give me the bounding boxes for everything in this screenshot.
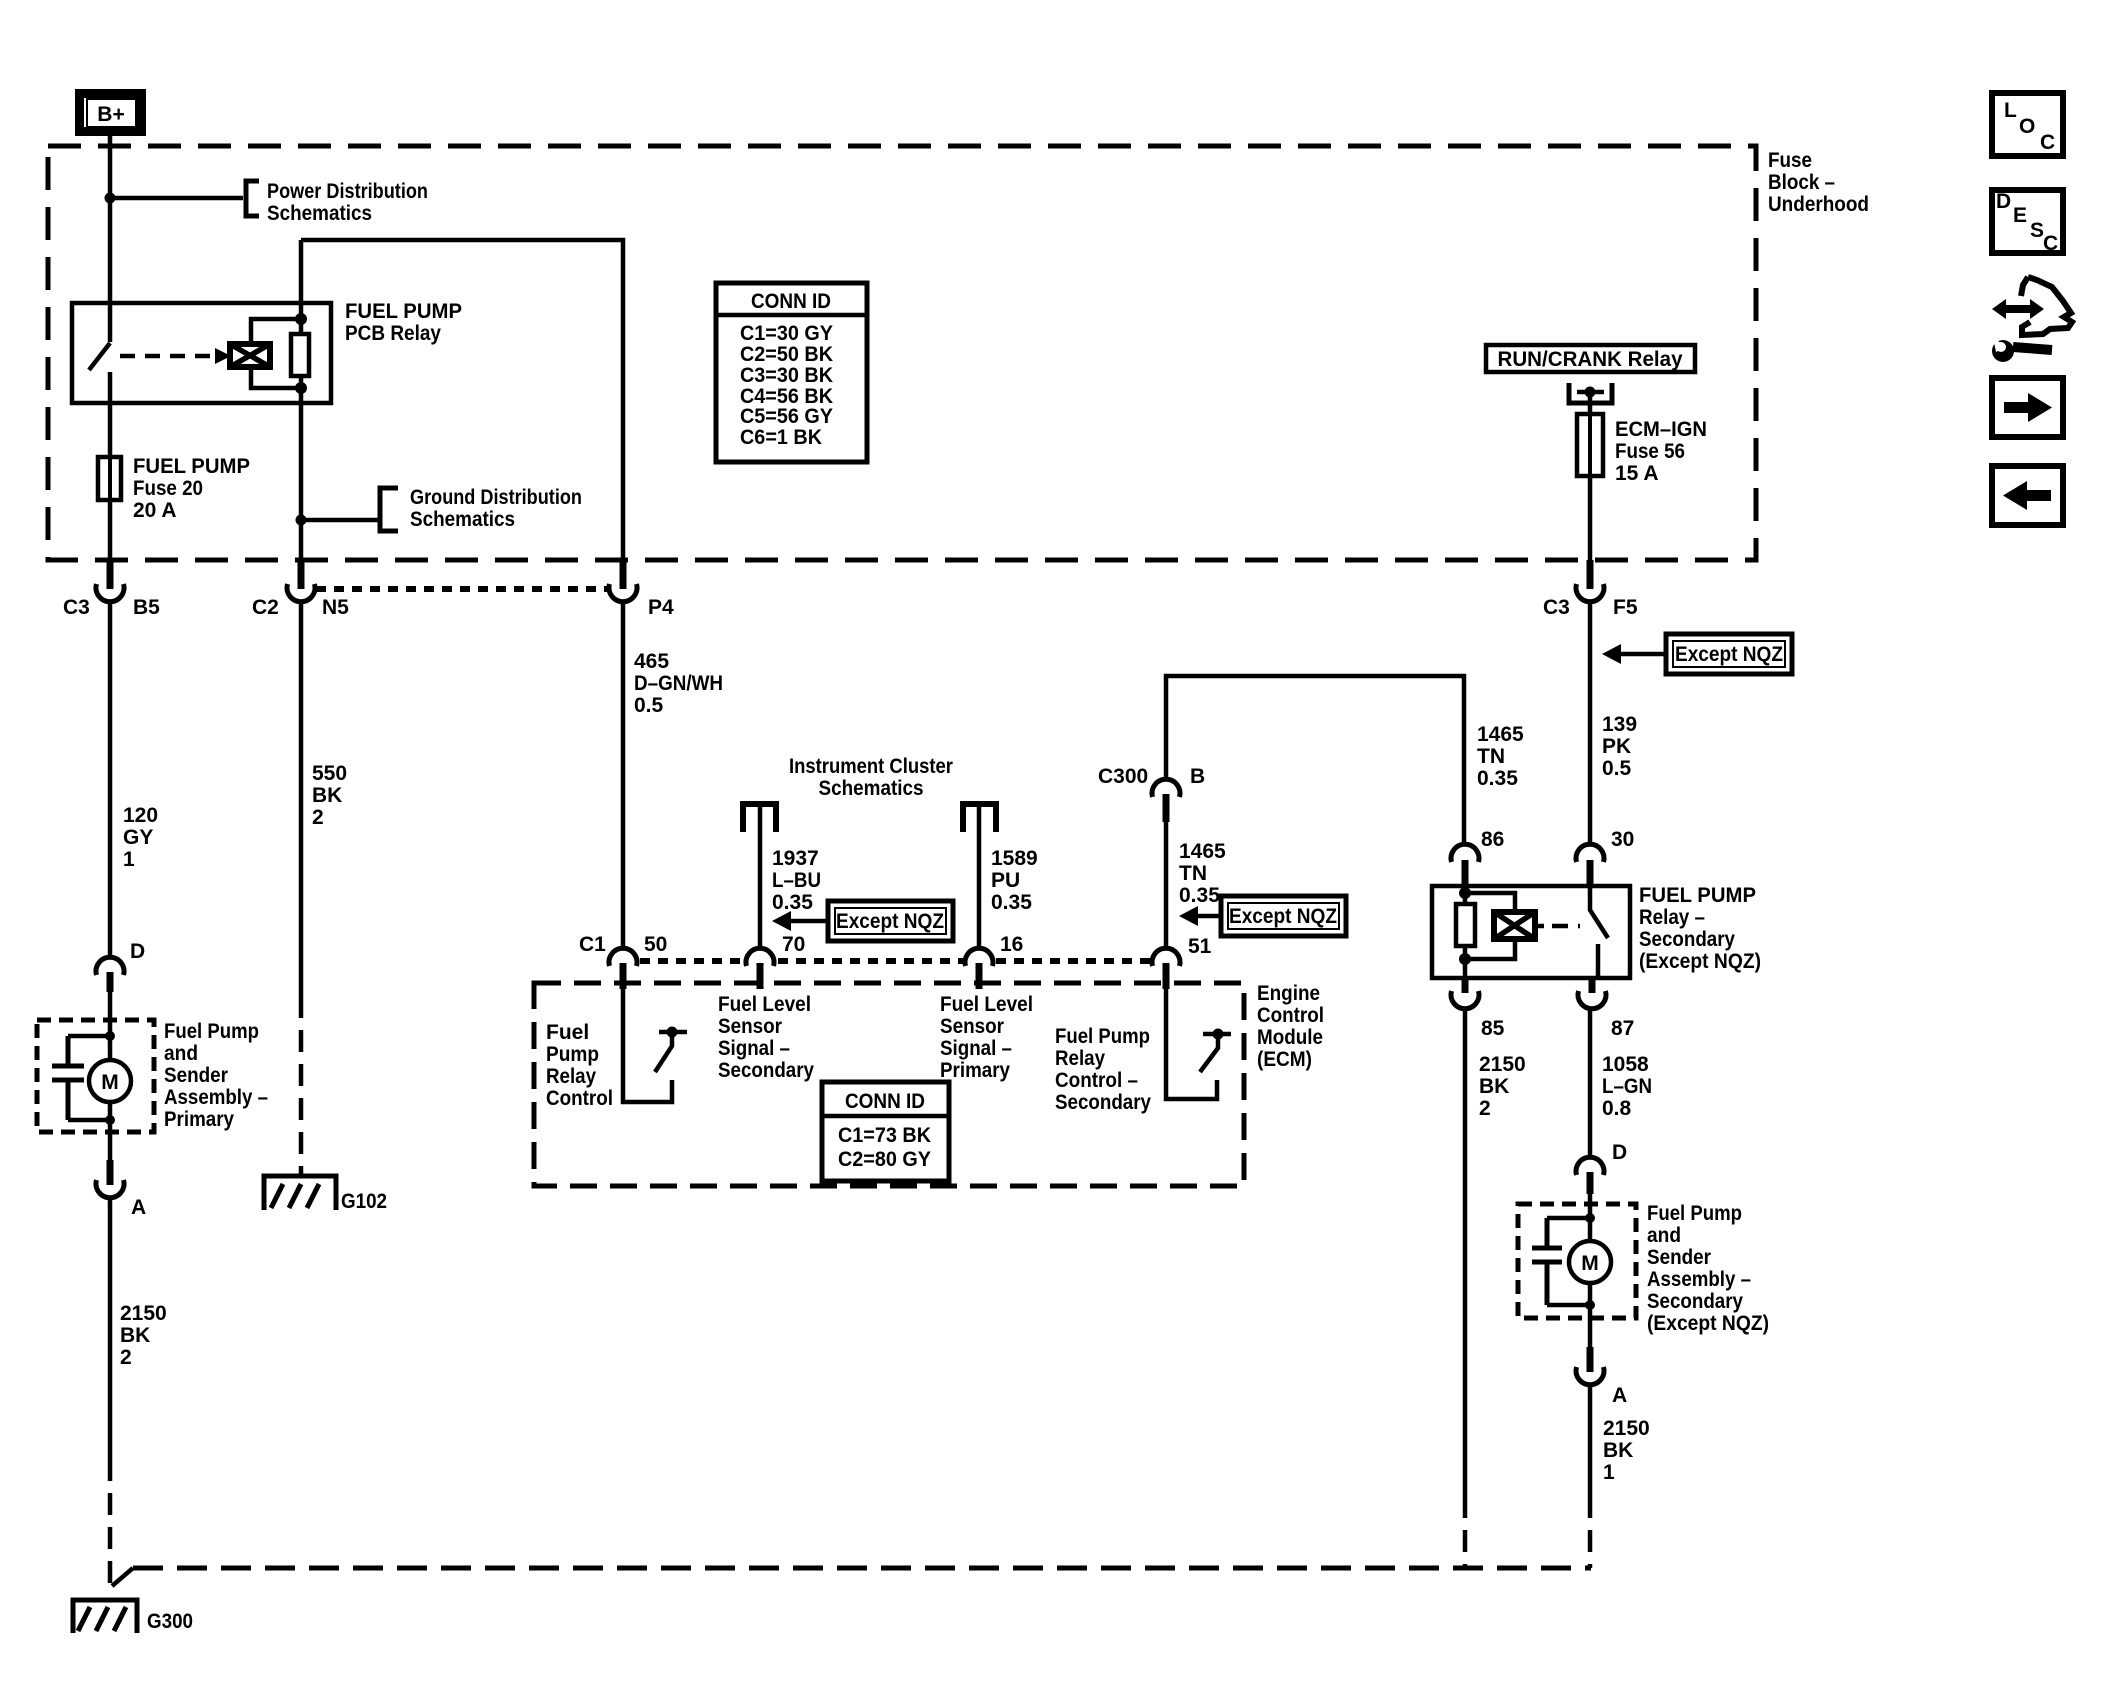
svg-text:30: 30 bbox=[1611, 828, 1634, 851]
svg-text:D: D bbox=[1612, 1141, 1627, 1164]
node: primary pump bottom junction bbox=[105, 1115, 115, 1125]
svg-text:Instrument Cluster: Instrument Cluster bbox=[789, 755, 953, 778]
relay K1 actuation dashed line with arrowhead bbox=[120, 348, 231, 364]
relay K2 left leg wire bbox=[1463, 886, 1468, 978]
relay K2 actuation dashed line bbox=[1552, 924, 1580, 929]
svg-text:Fuel Level: Fuel Level bbox=[940, 993, 1033, 1016]
svg-text:70: 70 bbox=[782, 933, 805, 956]
svg-text:Schematics: Schematics bbox=[410, 508, 515, 531]
icon: adjust/hand with double arrow and wrench bbox=[1992, 277, 2072, 362]
svg-text:FUEL PUMP: FUEL PUMP bbox=[345, 300, 462, 323]
table: CONN ID (fuse block) bbox=[716, 283, 867, 462]
svg-text:C5=56 GY: C5=56 GY bbox=[740, 405, 833, 428]
ECM driver switch (pin 51) bbox=[1166, 987, 1231, 1099]
wire: top elbow from relay coil to P4 column bbox=[301, 240, 623, 560]
svg-text:(Except NQZ): (Except NQZ) bbox=[1639, 950, 1761, 973]
svg-text:2150: 2150 bbox=[120, 1302, 167, 1325]
svg-text:0.35: 0.35 bbox=[1179, 884, 1220, 907]
svg-text:FUEL PUMP: FUEL PUMP bbox=[1639, 884, 1756, 907]
svg-text:M: M bbox=[101, 1071, 119, 1094]
svg-text:C2: C2 bbox=[252, 596, 279, 619]
svg-text:B: B bbox=[1190, 765, 1205, 788]
motor M1: primary fuel pump bbox=[89, 1060, 131, 1102]
svg-text:Ground Distribution: Ground Distribution bbox=[410, 486, 582, 509]
icon box DESC bbox=[1992, 190, 2063, 255]
label: Engine Control Module (ECM) bbox=[1257, 982, 1324, 1071]
connector C300 pin B bbox=[1098, 765, 1205, 822]
svg-text:85: 85 bbox=[1481, 1017, 1505, 1040]
svg-text:and: and bbox=[1647, 1224, 1681, 1247]
svg-text:CONN ID: CONN ID bbox=[845, 1090, 925, 1113]
fuel pump and sender assembly secondary (dashed box) bbox=[1518, 1204, 1636, 1318]
svg-text:RUN/CRANK Relay: RUN/CRANK Relay bbox=[1498, 348, 1683, 371]
capacitor in primary pump assembly bbox=[52, 1036, 110, 1120]
ECM driver switch (pin 50) bbox=[623, 987, 687, 1102]
svg-text:120: 120 bbox=[123, 804, 158, 827]
svg-text:Secondary: Secondary bbox=[1647, 1290, 1743, 1313]
label box: RUN/CRANK Relay bbox=[1486, 345, 1695, 372]
svg-text:ECM–IGN: ECM–IGN bbox=[1615, 418, 1707, 441]
wire: pump primary to connector A bbox=[108, 1102, 113, 1160]
relay K2 coil (X box) bbox=[1494, 912, 1544, 939]
svg-text:E: E bbox=[2013, 204, 2027, 227]
relay K2 coil branch wires bbox=[1465, 893, 1515, 959]
svg-text:87: 87 bbox=[1611, 1017, 1634, 1040]
svg-text:1: 1 bbox=[1603, 1461, 1615, 1484]
svg-text:L: L bbox=[2004, 99, 2017, 122]
svg-text:A: A bbox=[1612, 1384, 1627, 1407]
svg-text:550: 550 bbox=[312, 762, 347, 785]
svg-text:Primary: Primary bbox=[164, 1108, 234, 1131]
svg-text:Fuel: Fuel bbox=[546, 1021, 589, 1044]
wire 550 BK 2 (N5 to G102) bbox=[301, 601, 347, 1176]
svg-text:Fuel Pump: Fuel Pump bbox=[1055, 1025, 1150, 1048]
svg-text:and: and bbox=[164, 1042, 198, 1065]
label: FUEL PUMP PCB Relay bbox=[345, 300, 462, 345]
wire: switch output down from relay (x=110) bbox=[108, 372, 113, 560]
svg-text:S: S bbox=[2030, 219, 2044, 242]
capacitor in secondary pump assembly bbox=[1532, 1218, 1590, 1305]
ground G300 bbox=[73, 1600, 193, 1633]
wire: dotted C1 harness line bbox=[640, 958, 1150, 964]
svg-text:C300: C300 bbox=[1098, 765, 1148, 788]
svg-text:Except NQZ: Except NQZ bbox=[836, 910, 944, 933]
bracket: Power Distribution Schematics bbox=[246, 180, 428, 225]
relay K1: FUEL PUMP PCB Relay box bbox=[72, 303, 331, 403]
label: Fuel Pump and Sender Assembly Primary bbox=[164, 1020, 268, 1131]
svg-text:Secondary: Secondary bbox=[1055, 1091, 1151, 1114]
svg-text:Sensor: Sensor bbox=[940, 1015, 1004, 1038]
svg-text:G300: G300 bbox=[147, 1610, 193, 1633]
svg-text:Signal –: Signal – bbox=[718, 1037, 790, 1060]
relay K1 switch lever bbox=[89, 343, 110, 370]
relay K1 coil branch wires bbox=[251, 319, 301, 388]
svg-text:15 A: 15 A bbox=[1615, 462, 1659, 485]
svg-text:2150: 2150 bbox=[1603, 1417, 1650, 1440]
svg-text:N5: N5 bbox=[322, 596, 349, 619]
svg-text:(Except NQZ): (Except NQZ) bbox=[1647, 1312, 1769, 1335]
label: Fuel Level Sensor Signal Secondary bbox=[718, 993, 814, 1082]
node: secondary pump top junction bbox=[1585, 1213, 1595, 1223]
wire: dotted jumper N5 to P4 bbox=[316, 586, 608, 592]
label: Instrument Cluster Schematics bbox=[789, 755, 953, 800]
svg-text:C: C bbox=[2043, 232, 2058, 255]
connector pin 70 (ECM) bbox=[746, 933, 805, 989]
connector relay pin 85 bbox=[1451, 978, 1505, 1040]
svg-text:D: D bbox=[130, 940, 145, 963]
svg-text:L–BU: L–BU bbox=[772, 869, 821, 892]
svg-text:(ECM): (ECM) bbox=[1257, 1048, 1312, 1071]
svg-text:Fuel Pump: Fuel Pump bbox=[164, 1020, 259, 1043]
node: relay K2 coil top junction bbox=[1459, 887, 1471, 899]
fuse F56: ECM-IGN Fuse 56 bbox=[1577, 414, 1707, 485]
svg-text:F5: F5 bbox=[1613, 596, 1638, 619]
svg-text:1937: 1937 bbox=[772, 847, 819, 870]
connector pin 16 (ECM) bbox=[965, 933, 1023, 989]
ECM dashed box bbox=[534, 983, 1244, 1186]
relay terminal cup under RUN/CRANK bbox=[1569, 383, 1612, 403]
wire 1589 PU 0.35 (cluster to ECM pin 16) bbox=[979, 806, 1038, 947]
svg-text:D–GN/WH: D–GN/WH bbox=[634, 672, 723, 695]
svg-text:C3=30 BK: C3=30 BK bbox=[740, 364, 833, 387]
svg-text:Fuse 20: Fuse 20 bbox=[133, 477, 203, 500]
resistor inside relay K1 bbox=[291, 334, 309, 376]
svg-text:M: M bbox=[1581, 1252, 1599, 1275]
fuse block underhood (dashed boundary) bbox=[48, 146, 1756, 560]
svg-text:Secondary: Secondary bbox=[1639, 928, 1735, 951]
icon box: left arrow bbox=[1992, 466, 2063, 525]
wire: ground distribution tap bbox=[301, 518, 380, 523]
motor M2: secondary fuel pump bbox=[1569, 1241, 1611, 1283]
wire: ECM pin 51 riser and top elbow to relay pin 86 bbox=[1166, 676, 1464, 843]
svg-text:1: 1 bbox=[123, 848, 135, 871]
node: primary pump top junction bbox=[105, 1031, 115, 1041]
svg-text:Except NQZ: Except NQZ bbox=[1675, 643, 1783, 666]
svg-text:Relay: Relay bbox=[1055, 1047, 1105, 1070]
connector pin A (secondary pump) bbox=[1576, 1347, 1627, 1407]
svg-text:BK: BK bbox=[120, 1324, 150, 1347]
svg-text:Assembly –: Assembly – bbox=[1647, 1268, 1751, 1291]
svg-text:Fuse: Fuse bbox=[1768, 149, 1812, 172]
svg-text:1058: 1058 bbox=[1602, 1053, 1649, 1076]
svg-text:0.35: 0.35 bbox=[991, 891, 1032, 914]
svg-text:465: 465 bbox=[634, 650, 669, 673]
svg-text:0.5: 0.5 bbox=[634, 694, 664, 717]
wire: D to fuel pump secondary bbox=[1588, 1194, 1593, 1241]
node: coil branch bottom junction bbox=[295, 382, 307, 394]
node: secondary pump bottom junction bbox=[1585, 1300, 1595, 1310]
connector relay pin 86 bbox=[1451, 828, 1504, 886]
wire 1465 TN 0.35 (C300 to ECM pin 51) bbox=[1166, 822, 1226, 947]
connector pin D (primary pump) bbox=[96, 940, 145, 992]
svg-text:Schematics: Schematics bbox=[267, 202, 372, 225]
svg-text:Control: Control bbox=[1257, 1004, 1324, 1027]
svg-text:2150: 2150 bbox=[1479, 1053, 1526, 1076]
svg-text:C3: C3 bbox=[1543, 596, 1570, 619]
svg-text:D: D bbox=[1996, 190, 2011, 213]
table: CONN ID (ECM) bbox=[822, 1082, 949, 1181]
svg-text:Control –: Control – bbox=[1055, 1069, 1138, 1092]
svg-text:C1=73 BK: C1=73 BK bbox=[838, 1124, 931, 1147]
svg-text:1465: 1465 bbox=[1477, 723, 1524, 746]
svg-text:0.35: 0.35 bbox=[772, 891, 813, 914]
svg-text:L–GN: L–GN bbox=[1602, 1075, 1652, 1098]
connector relay pin 30 bbox=[1576, 828, 1634, 886]
wire 1937 L-BU 0.35 (cluster to ECM pin 70) bbox=[760, 806, 821, 947]
svg-text:Pump: Pump bbox=[546, 1043, 599, 1066]
icon box LOC bbox=[1992, 93, 2063, 156]
svg-text:C2=50 BK: C2=50 BK bbox=[740, 343, 833, 366]
svg-text:B5: B5 bbox=[133, 596, 160, 619]
connector C3 pin B5 bbox=[63, 560, 160, 619]
svg-text:C1: C1 bbox=[579, 933, 606, 956]
wire 1058 L-GN 0.8 (relay 87 to D) bbox=[1590, 1010, 1652, 1157]
svg-text:Assembly –: Assembly – bbox=[164, 1086, 268, 1109]
svg-text:Fuse 56: Fuse 56 bbox=[1615, 440, 1685, 463]
svg-text:TN: TN bbox=[1179, 862, 1207, 885]
svg-text:Fuel Level: Fuel Level bbox=[718, 993, 811, 1016]
wire: D to fuel pump primary bbox=[108, 992, 113, 1060]
svg-text:Sensor: Sensor bbox=[718, 1015, 782, 1038]
callout: Except NQZ (wire 139) bbox=[1602, 634, 1792, 674]
svg-text:O: O bbox=[2019, 115, 2035, 138]
fuel pump and sender assembly primary (dashed box) bbox=[37, 1020, 154, 1132]
svg-text:C3: C3 bbox=[63, 596, 90, 619]
svg-text:Block –: Block – bbox=[1768, 171, 1835, 194]
svg-text:Relay: Relay bbox=[546, 1065, 596, 1088]
svg-text:BK: BK bbox=[1603, 1439, 1633, 1462]
wire: RUN/CRANK output into fuse 56 bbox=[1588, 392, 1593, 414]
svg-text:Sender: Sender bbox=[164, 1064, 228, 1087]
svg-text:B+: B+ bbox=[97, 103, 124, 126]
wire: fuse 56 output to F5 (x=1590) bbox=[1588, 476, 1593, 560]
label: FUEL PUMP Relay Secondary (Except NQZ) bbox=[1639, 884, 1761, 973]
svg-text:Underhood: Underhood bbox=[1768, 193, 1869, 216]
node: power distribution tap junction bbox=[105, 193, 116, 204]
label: Fuel Pump Relay Control Secondary bbox=[1055, 1025, 1151, 1114]
svg-text:CONN ID: CONN ID bbox=[751, 290, 831, 313]
svg-text:0.5: 0.5 bbox=[1602, 757, 1632, 780]
svg-text:GY: GY bbox=[123, 826, 153, 849]
svg-text:Power Distribution: Power Distribution bbox=[267, 180, 428, 203]
wire 465 D-GN/WH 0.5 (P4 to ECM pin 50) bbox=[623, 601, 723, 947]
svg-text:Schematics: Schematics bbox=[819, 777, 924, 800]
svg-text:P4: P4 bbox=[648, 596, 674, 619]
wire: pump secondary to connector A bbox=[1588, 1283, 1593, 1347]
connector C2 pin N5 bbox=[252, 560, 349, 619]
power symbol B+ bbox=[80, 94, 142, 132]
svg-text:Primary: Primary bbox=[940, 1059, 1010, 1082]
svg-text:C1=30 GY: C1=30 GY bbox=[740, 322, 833, 345]
svg-text:Signal –: Signal – bbox=[940, 1037, 1012, 1060]
svg-text:C: C bbox=[2040, 131, 2055, 154]
wire: relay right leg (x=301) through resistor bbox=[299, 240, 304, 560]
bracket: Ground Distribution Schematics bbox=[380, 486, 582, 531]
svg-text:16: 16 bbox=[1000, 933, 1023, 956]
connector pin P4 bbox=[609, 560, 674, 619]
wire 139 PK 0.5 (F5 down to relay pin 30) bbox=[1590, 601, 1637, 843]
svg-text:Fuel Pump: Fuel Pump bbox=[1647, 1202, 1742, 1225]
wire 120 GY 1 (B5 down to D) bbox=[110, 601, 158, 956]
wire: B+ feed down to switch (x=110) bbox=[108, 136, 113, 342]
svg-text:PCB Relay: PCB Relay bbox=[345, 322, 441, 345]
callout: Except NQZ (wire 1465) bbox=[1179, 896, 1346, 936]
svg-text:Relay –: Relay – bbox=[1639, 906, 1705, 929]
connector C1 pin 50 (ECM) bbox=[579, 933, 667, 989]
label: Fuse Block Underhood bbox=[1768, 149, 1869, 216]
bracket: instrument cluster right bbox=[963, 804, 996, 832]
svg-text:50: 50 bbox=[644, 933, 667, 956]
svg-text:0.35: 0.35 bbox=[1477, 767, 1518, 790]
connector pin 51 (ECM) bbox=[1152, 935, 1212, 989]
svg-text:Engine: Engine bbox=[1257, 982, 1320, 1005]
svg-text:Secondary: Secondary bbox=[718, 1059, 814, 1082]
svg-text:PU: PU bbox=[991, 869, 1020, 892]
svg-text:BK: BK bbox=[312, 784, 342, 807]
svg-text:Sender: Sender bbox=[1647, 1246, 1711, 1269]
svg-text:86: 86 bbox=[1481, 828, 1504, 851]
svg-text:Except NQZ: Except NQZ bbox=[1229, 905, 1337, 928]
svg-text:FUEL PUMP: FUEL PUMP bbox=[133, 455, 250, 478]
connector C3 pin F5 bbox=[1543, 560, 1638, 619]
node: ground distribution junction bbox=[296, 515, 307, 526]
ground G102 bbox=[264, 1176, 387, 1213]
svg-text:A: A bbox=[131, 1196, 146, 1219]
svg-text:C2=80 GY: C2=80 GY bbox=[838, 1148, 931, 1171]
svg-text:PK: PK bbox=[1602, 735, 1631, 758]
relay K2: FUEL PUMP Relay Secondary box bbox=[1432, 886, 1630, 978]
svg-text:Control: Control bbox=[546, 1087, 613, 1110]
icon box: right arrow bbox=[1992, 378, 2063, 437]
wire: bottom dashed ground bus bbox=[112, 1568, 1591, 1586]
svg-text:2: 2 bbox=[312, 806, 324, 829]
svg-text:TN: TN bbox=[1477, 745, 1505, 768]
svg-text:1589: 1589 bbox=[991, 847, 1038, 870]
svg-text:51: 51 bbox=[1188, 935, 1212, 958]
svg-text:G102: G102 bbox=[341, 1190, 387, 1213]
fuse F20: FUEL PUMP Fuse 20 bbox=[98, 455, 250, 522]
connector pin D (secondary pump) bbox=[1576, 1141, 1627, 1194]
relay K1 coil (X box) bbox=[230, 344, 270, 367]
label: Fuel Pump and Sender Assembly Secondary (Except NQZ) bbox=[1647, 1202, 1769, 1335]
wire 2150 BK 1 (secondary ground wire) bbox=[1590, 1385, 1650, 1568]
wire: to power distribution bracket bbox=[110, 196, 243, 201]
svg-text:1465: 1465 bbox=[1179, 840, 1226, 863]
label: Fuel Level Sensor Signal Primary bbox=[940, 993, 1033, 1082]
bracket: instrument cluster left bbox=[743, 804, 776, 832]
label: wire 1465 TN 0.35 (right branch) bbox=[1477, 723, 1524, 790]
svg-text:BK: BK bbox=[1479, 1075, 1509, 1098]
wire 2150 BK 2 (relay 85 to ground bus) bbox=[1465, 1010, 1526, 1568]
label: Fuel Pump Relay Control bbox=[546, 1021, 613, 1110]
callout: Except NQZ (wire 1937) bbox=[772, 901, 953, 941]
svg-text:2: 2 bbox=[1479, 1097, 1491, 1120]
svg-text:139: 139 bbox=[1602, 713, 1637, 736]
svg-text:C6=1 BK: C6=1 BK bbox=[740, 426, 822, 449]
relay K2 switch lever bbox=[1590, 886, 1608, 978]
wire 2150 BK 2 (primary ground wire) bbox=[110, 1200, 167, 1592]
svg-text:Module: Module bbox=[1257, 1026, 1323, 1049]
svg-text:2: 2 bbox=[120, 1346, 132, 1369]
svg-text:20 A: 20 A bbox=[133, 499, 177, 522]
svg-text:0.8: 0.8 bbox=[1602, 1097, 1632, 1120]
node: relay K2 coil bottom junction bbox=[1459, 953, 1471, 965]
connector pin A (primary pump) bbox=[96, 1160, 146, 1219]
resistor inside relay K2 bbox=[1456, 904, 1475, 946]
node: coil branch top junction bbox=[295, 313, 307, 325]
connector relay pin 87 bbox=[1578, 978, 1634, 1040]
